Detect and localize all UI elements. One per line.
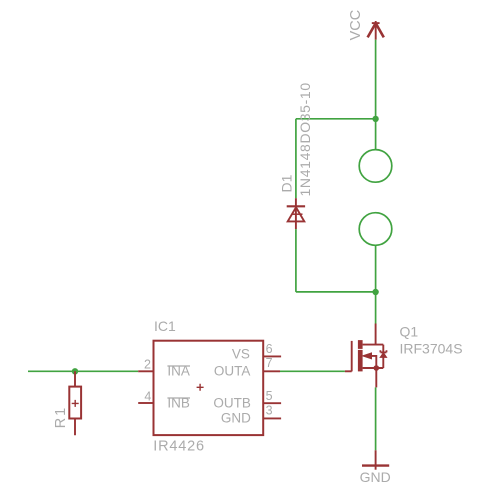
op-amp driver IC1 box bbox=[154, 341, 264, 435]
svg-text:GND: GND bbox=[221, 411, 251, 426]
svg-text:3: 3 bbox=[266, 403, 273, 417]
overline INB bbox=[167, 397, 190, 399]
svg-text:R1: R1 bbox=[53, 406, 69, 429]
wire top horizontal bbox=[296, 118, 376, 120]
wire node A to pin circle 1 bbox=[375, 119, 377, 150]
svg-text:Q1: Q1 bbox=[400, 324, 419, 340]
svg-text:4: 4 bbox=[144, 389, 151, 403]
node B junction bbox=[372, 289, 378, 295]
svg-text:1N4148DO35-10: 1N4148DO35-10 bbox=[297, 82, 313, 196]
svg-text:7: 7 bbox=[266, 356, 273, 370]
svg-text:OUTA: OUTA bbox=[214, 363, 251, 378]
wire IC1 pin7 to gate bbox=[280, 370, 345, 372]
svg-text:D1: D1 bbox=[278, 174, 294, 192]
svg-text:IR4426: IR4426 bbox=[153, 438, 205, 454]
wire diode branch upper bbox=[295, 119, 297, 198]
resistor R1 bbox=[69, 371, 81, 435]
connector pin circle 1 bbox=[359, 150, 392, 183]
supply VCC bbox=[368, 21, 384, 40]
wire source to ground bbox=[375, 387, 377, 450]
wire diode branch lower bbox=[295, 229, 297, 292]
wire VCC to node A bbox=[375, 40, 377, 119]
overline INA bbox=[167, 365, 190, 367]
svg-text:IC1: IC1 bbox=[154, 318, 176, 334]
svg-text:6: 6 bbox=[266, 342, 273, 356]
svg-text:GND: GND bbox=[360, 469, 391, 485]
pin 6 stub bbox=[263, 355, 281, 357]
node C junction bbox=[72, 368, 78, 374]
transistor Q1 bbox=[345, 324, 387, 388]
svg-text:2: 2 bbox=[144, 357, 151, 371]
wire main input bbox=[28, 370, 138, 372]
wire bottom horizontal bbox=[296, 291, 376, 293]
pin 2 stub bbox=[138, 370, 153, 372]
svg-text:OUTB: OUTB bbox=[213, 395, 251, 410]
wire pin circle 2 to node B bbox=[375, 246, 377, 293]
svg-text:5: 5 bbox=[266, 389, 273, 403]
pin 4 stub bbox=[138, 402, 153, 404]
svg-text:VCC: VCC bbox=[348, 10, 364, 41]
pin 5 stub bbox=[263, 402, 281, 404]
pin 3 stub bbox=[263, 417, 281, 419]
pin 7 stub bbox=[263, 370, 280, 372]
ground GND bbox=[362, 450, 389, 469]
diode D1 bbox=[287, 198, 305, 229]
wire drain top bbox=[375, 292, 377, 324]
node A junction bbox=[372, 116, 378, 122]
svg-text:IRF3704S: IRF3704S bbox=[400, 341, 463, 357]
origin cross IC1 bbox=[197, 384, 204, 391]
connector pin circle 2 bbox=[359, 213, 392, 246]
svg-text:VS: VS bbox=[232, 347, 250, 362]
